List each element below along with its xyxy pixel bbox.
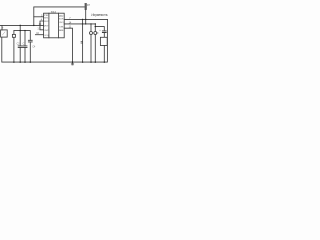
capacitor C1 plates [18,46,22,48]
capacitor C6 plates [102,31,106,33]
node dot rail 25.0 [24,61,26,63]
component G1 mark [2,32,5,35]
svg-text:C4: C4 [32,46,36,48]
load Rn box [100,37,107,45]
wire out1 [64,18,107,20]
wire stub pin left 1 [34,16,44,18]
wire mid horizontal [14,31,30,41]
label HL1 [93,32,94,33]
resistor R7 body [85,3,87,10]
node dot branch 95.3,26.6 [95,26,96,27]
capacitor C1 vertical [19,25,21,62]
svg-text:ОСЦ: ОСЦ [44,35,49,37]
node dot rail 82.6 [82,61,84,63]
svg-text:КОР: КОР [59,18,64,20]
resistor R7 lead [85,10,87,24]
component X1 lead [13,31,15,62]
node dot w1 85.5 [85,19,86,20]
IC DA1 box [44,13,65,38]
IC divider right [58,13,60,38]
node dot rail 20.2 [19,61,21,63]
lamp HL1 vertical [90,24,92,62]
label HL2 [97,32,98,33]
wire load branch [95,27,104,31]
node dot rail 104.3 [104,61,106,63]
node dot w1 82.6 [82,19,83,20]
node dot w2 95.3 [95,23,96,24]
node dot rail 29.5 [30,61,32,63]
svg-text:DA1: DA1 [51,10,57,14]
svg-text:+: + [2,27,4,30]
node dot rail 13.9 [13,61,15,63]
capacitor C2 plates [23,46,27,48]
svg-text:+: + [99,29,101,32]
capacitor C3 lower lead [29,42,31,62]
component G1 body [1,30,8,37]
node dot 33.8,25.4 [33,25,35,27]
node dot rail 91.0 [90,61,92,63]
lamp HL2 vertical [94,24,96,62]
svg-text:ОЧЗ: ОЧЗ [59,22,64,24]
wire out3 down [64,28,72,62]
wire branch A [82,19,84,62]
capacitor C2 vertical [24,31,26,62]
svg-text:Исправность: Исправность [91,13,108,17]
wire stub pin left 5 [35,34,43,36]
node dot w2 82.6 [82,23,83,24]
svg-text:R7: R7 [87,4,91,7]
capacitor C3 plates [28,40,32,42]
wire left input [0,24,44,26]
component X1 body [12,34,15,37]
capacitor C5 mark [81,42,83,43]
ground symbol [71,62,73,65]
node dot w2 91.0 [90,23,91,24]
node dot 25.0,30.6 [24,30,25,31]
IC divider left [48,13,50,38]
node dot rail 72.5 [72,61,74,63]
wire top rail [34,7,86,26]
node dot w2 85.5 [85,23,86,24]
wire ground rail [2,19,108,62]
svg-text:C3: C3 [23,43,27,45]
node dot rail 95.3 [95,61,97,63]
node dot wire/junction 20.2,25.4 [19,25,21,27]
svg-text:C2: C2 [17,43,21,45]
node dot 20.2,30.6 [20,30,21,31]
svg-text:СБР: СБР [44,30,49,32]
load Rn lead [103,46,105,63]
wire stub pin left 2 and 4 via vertical [40,21,44,30]
capacitor C6 lead [103,33,105,38]
component G1 top lead [1,25,3,30]
lamp HL1 circle [90,32,93,35]
svg-text:ОВ: ОВ [59,27,64,29]
wire out2 [64,23,95,25]
lamp HL2 circle [94,32,97,35]
